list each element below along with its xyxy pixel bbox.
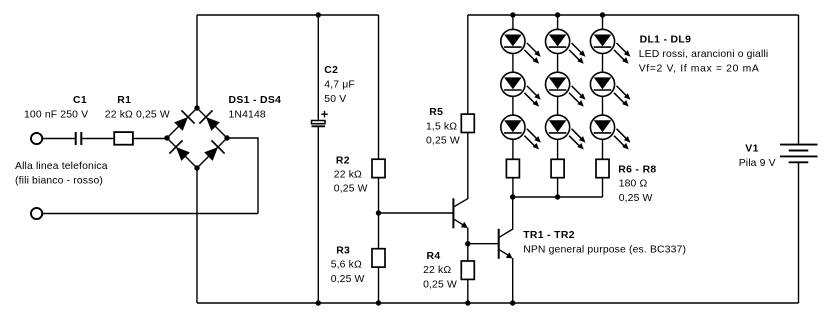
wire top-right rail [468,14,799,16]
LED DL9 [590,115,630,149]
transistor TR2 [499,229,513,259]
diode DS3 (bottom node to left node) [169,140,192,163]
wire TR1 collector to R5 [467,132,469,199]
node TR1 emitter junction [465,241,470,246]
node bridge top [194,105,199,110]
terminal J1 (upper phone-line terminal) [31,133,42,144]
svg-text:4,7 μF: 4,7 μF [324,80,355,91]
wire R4 to bottom rail [467,279,469,303]
svg-text:R4: R4 [427,251,441,262]
wire battery bottom lead [798,162,800,303]
node LED column 1 top [510,12,515,17]
svg-text:TR1 - TR2: TR1 - TR2 [523,230,575,241]
wire top rail down to R2 [378,15,380,159]
wire bridge bottom node down to ground rail [196,168,198,303]
node divider junction [376,210,381,215]
wire R1 to bridge left node [133,138,167,140]
wire TR1 emitter to junction [467,228,469,244]
LED DL8 [590,72,630,106]
wire C2 branch lower [317,126,319,303]
svg-text:22 kΩ: 22 kΩ [423,265,451,276]
svg-text:DS1 - DS4: DS1 - DS4 [229,95,282,106]
svg-text:22 kΩ 0,25 W: 22 kΩ 0,25 W [105,109,170,120]
wire DL3 to R6 [512,139,514,159]
svg-text:C1: C1 [73,95,87,106]
wire DL6 to R7 [557,139,559,159]
resistor R3 [372,249,385,267]
LED DL5 [546,72,586,106]
svg-text:22 kΩ: 22 kΩ [334,169,362,180]
node R3 bottom rail junction [376,300,381,305]
wire battery top lead [798,15,800,145]
svg-text:R6 - R8: R6 - R8 [618,164,656,175]
transistor TR1 [453,198,467,228]
wire R7 to LED rail [557,178,559,197]
capacitor C2 (polarized) [312,111,328,126]
diode DS1 (left node to top node) [172,110,195,133]
diode DS2 (right node to top node) [199,110,222,133]
wire bridge top node to top-left rail [196,15,198,108]
battery V1 [780,145,818,163]
svg-text:R3: R3 [336,246,350,257]
wire DL2 to DL3 [512,96,514,115]
node bridge right [224,135,229,140]
wire DL1 to DL2 [512,54,514,73]
svg-text:Alla linea telefonica: Alla linea telefonica [15,161,108,172]
svg-text:R5: R5 [429,107,443,118]
svg-text:LED rossi, arancioni o gialli: LED rossi, arancioni o gialli [639,49,769,60]
svg-text:5,6 kΩ: 5,6 kΩ [331,260,362,271]
wire DL8 to DL9 [602,96,604,115]
wire junction to TR2 base [468,243,499,245]
node TR2 emitter bottom rail junction [510,300,515,305]
svg-text:NPN general purpose (es. BC337: NPN general purpose (es. BC337) [523,244,686,255]
node LED rail left junction [510,194,515,199]
node LED column 3 top [600,12,605,17]
wire J1 to C1 [43,138,75,140]
wire C2 branch upper [317,15,319,121]
wire R3 to bottom rail [378,267,380,303]
svg-text:0,25 W: 0,25 W [619,193,653,204]
wire LED bottom rail [513,196,603,198]
node C2 top rail junction [316,12,321,17]
resistor R1 [114,132,133,145]
svg-text:DL1 - DL9: DL1 - DL9 [640,35,692,46]
wire R5 to top rail [467,15,469,114]
bridge arm bottom-right wire [197,138,227,168]
svg-text:C2: C2 [324,65,338,76]
svg-text:0,25 W: 0,25 W [426,136,460,147]
resistor R2 [372,159,385,177]
bridge arm top-right wire [197,108,227,138]
svg-text:1,5 kΩ: 1,5 kΩ [426,121,457,132]
resistor R6 [506,159,519,177]
resistor R4 [461,261,474,279]
wire R6 to LED rail [512,178,514,197]
bridge arm top-left wire [167,108,197,138]
svg-text:Pila 9 V: Pila 9 V [739,158,776,169]
LED DL6 [546,115,586,149]
wire bottom rail [197,302,799,304]
LED DL4 [546,29,586,63]
svg-text:0,25 W: 0,25 W [331,274,365,285]
node C2 bottom rail junction [316,300,321,305]
terminal J2 (lower phone-line terminal) [31,208,42,219]
svg-text:180 Ω: 180 Ω [619,179,648,190]
svg-text:V1: V1 [745,143,758,154]
capacitor C1 [76,132,82,145]
svg-text:R1: R1 [117,95,131,106]
wire DL9 to R8 [602,139,604,159]
node LED rail middle junction [555,194,560,199]
svg-text:0,25 W: 0,25 W [334,184,368,195]
wire DL5 to DL6 [557,96,559,115]
node LED column 2 top [555,12,560,17]
resistor R8 [596,159,609,177]
svg-text:(fili bianco - rosso): (fili bianco - rosso) [15,176,103,187]
wire top-left rail [197,14,379,16]
wire TR2 emitter to bottom rail [512,258,514,303]
wire J2 to corner below bridge [43,213,258,215]
wire DL7 to DL8 [602,54,604,73]
LED DL3 [501,115,541,149]
svg-text:100 nF 250 V: 100 nF 250 V [24,109,88,120]
node bridge left [164,135,169,140]
wire column 3 top [602,15,604,30]
svg-text:Vf=2 V, If max = 20 mA: Vf=2 V, If max = 20 mA [639,63,760,74]
resistor R5 [461,114,474,132]
svg-text:0,25 W: 0,25 W [423,279,457,290]
svg-text:1N4148: 1N4148 [229,109,266,120]
LED DL1 [501,29,541,63]
diode DS4 (bottom node to right node) [202,140,225,163]
wire corner up to bridge right node [227,138,258,214]
wire R8 to LED rail [602,178,604,197]
resistor R7 [551,159,564,177]
node bridge bottom [194,165,199,170]
wire R2 to R3 [378,178,380,249]
LED DL2 [501,72,541,106]
svg-text:R2: R2 [336,155,350,166]
wire divider junction to TR1 base [379,212,454,214]
wire column 2 top [557,15,559,30]
wire TR2 collector to LED rail [512,197,514,230]
wire C1 to R1 [82,138,114,140]
LED DL7 [590,29,630,63]
svg-text:50 V: 50 V [324,94,346,105]
node R4 bottom rail junction [465,300,470,305]
wire column 1 top [512,15,514,30]
wire junction down to R4 [467,244,469,261]
wire DL4 to DL5 [557,54,559,73]
bridge arm bottom-left wire [167,138,197,168]
